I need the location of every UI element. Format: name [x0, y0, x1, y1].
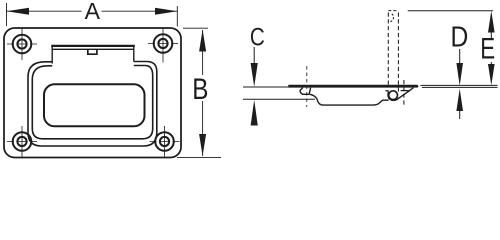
dimension C: [243, 47, 315, 99]
svg-text:E: E: [480, 33, 495, 66]
dimension D: [459, 49, 461, 119]
screw hole top-right: [148, 28, 178, 63]
plate outline: [4, 28, 181, 158]
bracket under bar right: [385, 90, 388, 92]
dimension E: [408, 11, 498, 88]
svg-text:D: D: [451, 22, 469, 54]
lid (spring cover) top edge: [51, 45, 135, 47]
screw hole bottom-left: [7, 126, 37, 157]
dimension B: [177, 28, 221, 157]
lid inner line: [53, 48, 133, 50]
lid notch: [88, 49, 97, 54]
screw hole top-left: [7, 29, 37, 61]
dimension A: [7, 3, 178, 27]
screw hole bottom-right: [150, 126, 180, 157]
tray profile: [310, 94, 389, 105]
svg-text:C: C: [250, 24, 265, 52]
svg-text:B: B: [192, 73, 208, 106]
finger recess S3: [44, 84, 145, 126]
flange bar (filled): [288, 85, 418, 88]
svg-text:A: A: [85, 0, 101, 24]
pivot circle: [389, 91, 398, 100]
recess rim inner outline S2: [32, 66, 152, 139]
recess rim outer outline S1: [28, 62, 157, 147]
foot under bar left: [300, 88, 310, 95]
hidden handle (dashed): [307, 11, 404, 108]
